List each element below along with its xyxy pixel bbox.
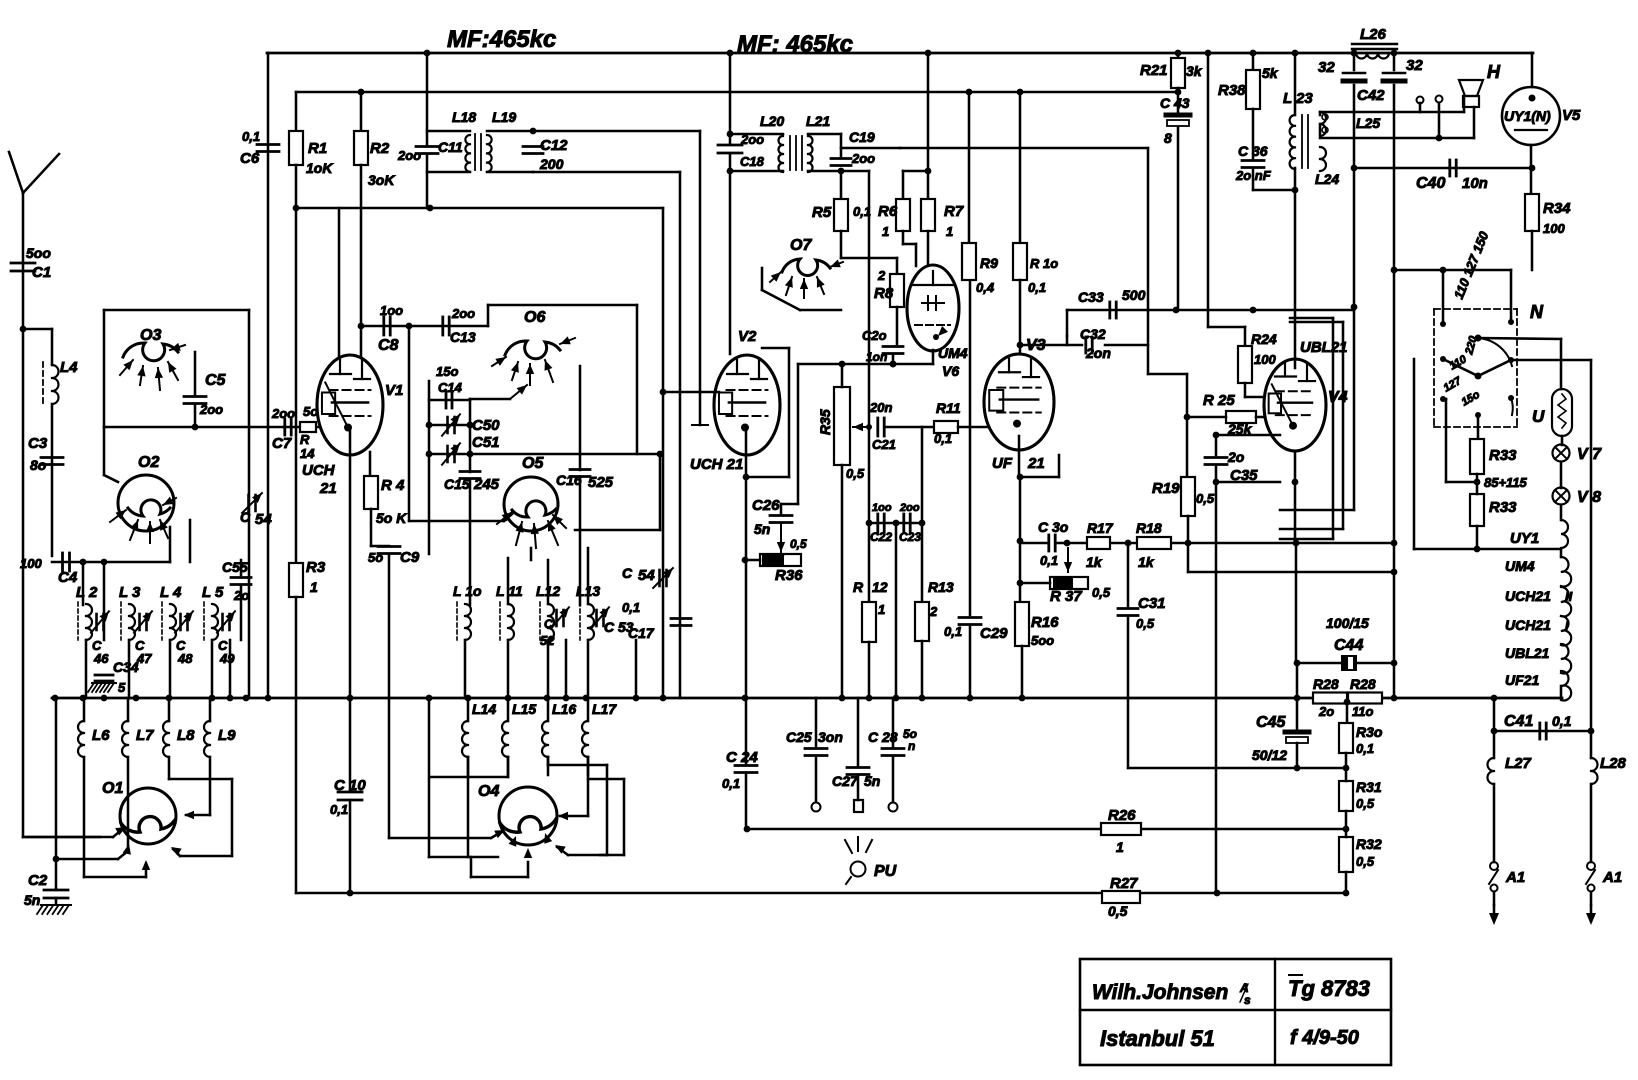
svg-text:2oo: 2oo: [451, 306, 475, 321]
svg-text:C51: C51: [472, 434, 500, 451]
svg-text:C13: C13: [450, 329, 476, 345]
svg-text:O1: O1: [102, 780, 123, 797]
svg-text:C: C: [622, 565, 633, 581]
svg-text:15o: 15o: [1460, 389, 1483, 409]
svg-text:C55: C55: [222, 559, 248, 575]
svg-text:L27: L27: [1505, 755, 1532, 772]
svg-text:32: 32: [1318, 59, 1335, 76]
svg-text:C19: C19: [849, 129, 875, 145]
svg-text:3k: 3k: [1186, 63, 1203, 79]
svg-text:UCH: UCH: [302, 462, 336, 479]
svg-text:MF:465kc: MF:465kc: [447, 26, 556, 53]
svg-text:U: U: [1532, 407, 1545, 426]
svg-text:C32: C32: [1080, 326, 1106, 342]
svg-text:R31: R31: [1356, 779, 1382, 795]
svg-text:O5: O5: [522, 455, 544, 472]
svg-text:C50: C50: [472, 417, 500, 434]
svg-text:L 2: L 2: [76, 584, 98, 601]
svg-text:L8: L8: [177, 727, 195, 744]
svg-text:L26: L26: [1360, 26, 1387, 43]
svg-text:C18: C18: [740, 154, 765, 169]
svg-text:1k: 1k: [1086, 554, 1103, 570]
svg-text:UCH21: UCH21: [1505, 617, 1551, 633]
svg-text:1: 1: [310, 579, 318, 595]
svg-text:52: 52: [540, 633, 555, 648]
svg-text:R32: R32: [1356, 836, 1382, 852]
svg-text:R26: R26: [1108, 807, 1136, 824]
svg-text:R19: R19: [1152, 480, 1180, 497]
svg-text:C15: C15: [444, 476, 470, 492]
svg-text:3oK: 3oK: [368, 172, 395, 188]
svg-text:1: 1: [878, 602, 885, 617]
svg-text:s: s: [1244, 993, 1251, 1007]
svg-text:20n: 20n: [869, 400, 892, 415]
svg-text:R2: R2: [370, 140, 390, 157]
svg-text:C42: C42: [1357, 87, 1385, 104]
svg-text:500: 500: [1122, 287, 1146, 303]
svg-text:5oo: 5oo: [1031, 633, 1054, 648]
svg-text:0,1: 0,1: [944, 624, 962, 639]
svg-text:V5: V5: [1562, 107, 1581, 124]
svg-text:C34: C34: [113, 659, 139, 675]
svg-text:5o K: 5o K: [376, 510, 407, 526]
svg-text:0,1: 0,1: [242, 129, 260, 144]
svg-text:C4: C4: [58, 569, 78, 586]
svg-text:R: R: [853, 579, 864, 595]
svg-text:O4: O4: [478, 783, 499, 800]
svg-text:Istanbul 51: Istanbul 51: [1100, 1026, 1215, 1051]
svg-text:48: 48: [177, 651, 193, 666]
svg-text:85+115: 85+115: [1484, 475, 1528, 490]
svg-text:L21: L21: [806, 113, 830, 129]
svg-text:110 127 150: 110 127 150: [1451, 229, 1492, 301]
svg-text:H: H: [1487, 62, 1501, 82]
svg-text:R33: R33: [1489, 447, 1517, 464]
svg-text:0,1: 0,1: [1356, 741, 1374, 756]
svg-text:L6: L6: [92, 727, 110, 744]
svg-text:2oo: 2oo: [899, 502, 920, 514]
svg-text:O7: O7: [790, 237, 812, 254]
svg-text:0,1: 0,1: [330, 802, 348, 817]
svg-text:46: 46: [93, 651, 109, 666]
svg-text:21: 21: [1027, 455, 1045, 472]
svg-text:C31: C31: [1138, 595, 1166, 612]
svg-text:Tg 8783: Tg 8783: [1288, 976, 1370, 1001]
svg-text:0,5: 0,5: [790, 537, 807, 551]
svg-text:14: 14: [300, 446, 315, 461]
svg-text:0,1: 0,1: [722, 776, 740, 791]
svg-text:0,5: 0,5: [1356, 796, 1375, 811]
svg-text:15o: 15o: [436, 364, 458, 379]
svg-text:R24: R24: [1251, 331, 1277, 347]
svg-text:100: 100: [1254, 352, 1276, 367]
svg-text:C21: C21: [872, 437, 896, 452]
svg-text:C9: C9: [400, 549, 420, 566]
svg-text:R21: R21: [1140, 62, 1168, 79]
svg-text:C14: C14: [438, 380, 463, 395]
svg-text:2oo: 2oo: [271, 406, 295, 421]
svg-text:100/15: 100/15: [1326, 615, 1369, 631]
svg-text:C3: C3: [28, 435, 48, 452]
svg-text:2: 2: [877, 268, 886, 283]
svg-text:C12: C12: [540, 137, 568, 154]
svg-text:C25: C25: [786, 729, 812, 745]
svg-text:V 8: V 8: [1577, 489, 1601, 506]
svg-text:21: 21: [319, 480, 337, 497]
svg-text:L20: L20: [760, 113, 784, 129]
svg-text:8: 8: [1164, 130, 1172, 146]
svg-text:1: 1: [946, 224, 953, 239]
svg-text:2oo: 2oo: [199, 402, 223, 417]
svg-text:R11: R11: [936, 400, 961, 416]
svg-text:C44: C44: [1334, 637, 1363, 654]
svg-text:C2: C2: [28, 872, 48, 889]
svg-text:R17: R17: [1087, 520, 1114, 536]
svg-text:L 4: L 4: [160, 584, 182, 601]
svg-text:V3: V3: [1026, 337, 1046, 354]
svg-text:49: 49: [219, 651, 235, 666]
svg-text:1oo: 1oo: [872, 502, 892, 514]
svg-text:C5: C5: [205, 372, 227, 389]
svg-text:525: 525: [588, 474, 614, 491]
svg-text:0,1: 0,1: [1028, 280, 1046, 295]
svg-text:C1: C1: [32, 264, 51, 281]
svg-text:L18: L18: [452, 109, 476, 125]
svg-text:C7: C7: [272, 435, 292, 452]
svg-text:0,1: 0,1: [934, 431, 952, 446]
svg-text:R 25: R 25: [1203, 392, 1235, 409]
svg-text:R5: R5: [812, 204, 832, 221]
svg-text:R 37: R 37: [1050, 588, 1082, 605]
svg-text:R33: R33: [1489, 499, 1517, 516]
svg-text:2on: 2on: [1085, 345, 1111, 361]
svg-text:UBL21: UBL21: [1300, 339, 1348, 356]
svg-text:L 23: L 23: [1283, 90, 1313, 107]
svg-text:L 5: L 5: [202, 584, 224, 601]
svg-text:R18: R18: [1136, 520, 1162, 536]
svg-text:L 1o: L 1o: [453, 583, 482, 599]
svg-text:f 4/9-50: f 4/9-50: [1290, 1027, 1359, 1049]
svg-text:UBL21: UBL21: [1505, 645, 1550, 661]
svg-text:R35: R35: [817, 409, 833, 435]
svg-text:2oo: 2oo: [851, 151, 875, 166]
svg-text:R 4: R 4: [381, 477, 405, 494]
svg-text:L16: L16: [552, 701, 576, 717]
svg-text:5oo: 5oo: [26, 245, 51, 261]
svg-text:1k: 1k: [1138, 554, 1155, 570]
svg-text:2oo: 2oo: [740, 132, 764, 147]
svg-text:R34: R34: [1543, 200, 1571, 217]
svg-text:R3o: R3o: [1356, 724, 1383, 740]
svg-text:0,1: 0,1: [1552, 713, 1572, 729]
svg-text:UM4: UM4: [1505, 558, 1535, 574]
svg-text:C41: C41: [1504, 713, 1533, 730]
svg-text:C26: C26: [752, 497, 780, 514]
svg-text:C 36: C 36: [1238, 143, 1268, 159]
svg-text:1: 1: [882, 224, 889, 239]
svg-text:R28: R28: [1313, 676, 1339, 692]
svg-text:BK: BK: [770, 554, 784, 564]
svg-text:C6: C6: [240, 150, 260, 167]
svg-text:UCH 21: UCH 21: [690, 456, 743, 473]
svg-text:5: 5: [118, 680, 126, 695]
svg-text:2: 2: [929, 604, 938, 619]
svg-text:R36: R36: [775, 567, 803, 584]
svg-text:0,5: 0,5: [1092, 585, 1111, 600]
svg-text:0,1: 0,1: [622, 600, 640, 615]
svg-text:0,5: 0,5: [846, 466, 865, 481]
svg-text:1on: 1on: [866, 350, 887, 364]
svg-text:R 1o: R 1o: [1030, 256, 1058, 271]
svg-text:L19: L19: [492, 109, 516, 125]
svg-text:C8: C8: [378, 337, 399, 354]
svg-text:245: 245: [473, 476, 500, 493]
svg-text:5n: 5n: [24, 892, 40, 908]
svg-text:C45: C45: [1256, 714, 1286, 731]
svg-text:Wilh.Johnsen: Wilh.Johnsen: [1092, 981, 1228, 1004]
svg-text:V1: V1: [385, 382, 403, 399]
svg-text:V2: V2: [738, 328, 757, 345]
svg-text:R: R: [300, 432, 310, 447]
svg-text:200: 200: [539, 156, 564, 172]
svg-text:V 7: V 7: [1577, 446, 1602, 463]
svg-text:UY1: UY1: [1510, 530, 1539, 547]
svg-text:V4: V4: [1328, 389, 1348, 406]
svg-text:R8: R8: [874, 285, 894, 302]
svg-text:2oo: 2oo: [397, 148, 421, 163]
svg-text:C33: C33: [1078, 289, 1104, 305]
svg-text:UCH21: UCH21: [1505, 588, 1551, 604]
svg-text:C23: C23: [899, 530, 921, 544]
svg-text:R16: R16: [1031, 614, 1059, 631]
svg-text:8o: 8o: [30, 457, 47, 473]
svg-text:R3: R3: [306, 559, 326, 576]
svg-text:0,5: 0,5: [1136, 616, 1155, 631]
svg-text:11o: 11o: [1352, 704, 1373, 719]
svg-text:R38: R38: [1218, 82, 1246, 99]
svg-text:C: C: [240, 509, 251, 525]
svg-text:L4: L4: [60, 359, 78, 376]
svg-text:L14: L14: [472, 701, 496, 717]
svg-text:UM4: UM4: [938, 345, 968, 361]
svg-text:C40: C40: [1416, 175, 1445, 192]
svg-text:0,1: 0,1: [853, 204, 871, 219]
svg-text:R13: R13: [928, 579, 954, 595]
svg-text:5k: 5k: [1262, 65, 1279, 81]
svg-text:C 43: C 43: [1160, 95, 1190, 111]
svg-text:220: 220: [1463, 334, 1480, 357]
svg-text:L7: L7: [136, 727, 154, 744]
svg-text:PU: PU: [874, 863, 897, 880]
svg-text:O2: O2: [138, 454, 159, 471]
svg-text:A1: A1: [1505, 869, 1525, 886]
svg-text:C 53: C 53: [604, 619, 634, 635]
svg-text:A1: A1: [1602, 869, 1622, 886]
svg-text:R7: R7: [944, 203, 964, 220]
svg-text:C29: C29: [980, 625, 1008, 642]
svg-text:C22: C22: [870, 530, 892, 544]
svg-text:50/12: 50/12: [1252, 747, 1287, 763]
svg-text:n: n: [908, 739, 915, 753]
svg-text:L15: L15: [512, 701, 536, 717]
svg-text:L28: L28: [1600, 755, 1627, 772]
svg-text:R6: R6: [878, 203, 898, 220]
svg-text:R28: R28: [1350, 676, 1376, 692]
svg-text:0,1: 0,1: [1040, 553, 1058, 568]
svg-text:0,5: 0,5: [1196, 491, 1215, 506]
svg-text:10n: 10n: [1462, 175, 1488, 192]
svg-text:100: 100: [20, 556, 42, 571]
svg-text:V6: V6: [942, 363, 959, 379]
svg-text:0,5: 0,5: [1108, 903, 1128, 919]
svg-text:127: 127: [1442, 375, 1465, 395]
svg-text:0,5: 0,5: [1356, 854, 1375, 869]
svg-text:L25: L25: [1356, 115, 1380, 131]
svg-text:3on: 3on: [818, 729, 843, 745]
svg-text:5o: 5o: [368, 550, 383, 565]
svg-text:1oK: 1oK: [306, 160, 333, 176]
svg-text:54: 54: [638, 567, 655, 584]
svg-text:UF21: UF21: [1505, 672, 1539, 688]
svg-text:1: 1: [1116, 839, 1124, 855]
svg-text:R1: R1: [308, 140, 327, 157]
svg-text:L24: L24: [1315, 171, 1339, 187]
svg-text:L9: L9: [218, 727, 236, 744]
svg-text:12: 12: [872, 579, 888, 595]
svg-text:UF: UF: [992, 455, 1013, 472]
svg-text:R9: R9: [980, 255, 998, 271]
svg-text:54: 54: [255, 511, 272, 528]
svg-text:2o: 2o: [1227, 449, 1245, 465]
svg-text:L 3: L 3: [119, 584, 141, 601]
svg-text:C: C: [544, 617, 553, 631]
svg-text:L 11: L 11: [496, 583, 523, 599]
svg-text:0,4: 0,4: [976, 280, 995, 295]
svg-text:C11: C11: [438, 139, 463, 155]
svg-text:1oo: 1oo: [380, 303, 403, 318]
svg-text:R27: R27: [1110, 875, 1138, 892]
svg-text:32: 32: [1406, 57, 1423, 74]
svg-text:C2o: C2o: [862, 328, 887, 343]
svg-text:5n: 5n: [754, 521, 770, 537]
svg-text:N: N: [1530, 302, 1544, 322]
svg-text:O6: O6: [524, 309, 545, 326]
svg-text:2o: 2o: [1318, 704, 1334, 719]
svg-text:C16: C16: [556, 472, 582, 488]
svg-text:C 24: C 24: [726, 749, 758, 766]
svg-text:100: 100: [1543, 221, 1565, 236]
svg-text:UY1(N): UY1(N): [1504, 108, 1551, 124]
svg-text:C 3o: C 3o: [1038, 519, 1069, 535]
svg-text:L17: L17: [592, 701, 617, 717]
